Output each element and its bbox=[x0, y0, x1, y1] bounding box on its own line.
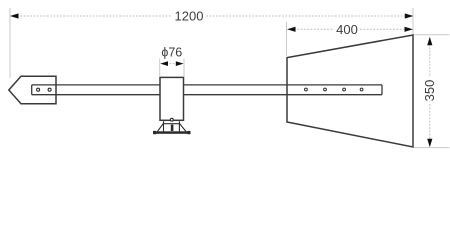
base plate bbox=[153, 131, 191, 134]
base center anchor bolt bbox=[171, 125, 174, 131]
left pointed end cap (pentagon) bbox=[9, 76, 56, 103]
dim phi76 arrow left bbox=[160, 61, 168, 66]
svg-text:ϕ76: ϕ76 bbox=[161, 46, 182, 60]
dim line 350 bbox=[429, 44, 431, 140]
dim 350 extension line top bbox=[414, 34, 450, 36]
dim line 1200 bbox=[17, 15, 406, 17]
hole R4 bbox=[360, 88, 363, 91]
dim 1200 arrow right bbox=[405, 13, 414, 18]
base plate end bolt right bbox=[187, 131, 190, 134]
base bolt circle bbox=[170, 118, 173, 121]
hole L1 bbox=[37, 88, 40, 91]
dim 400 arrow left bbox=[287, 27, 296, 32]
vertical column post bbox=[160, 77, 184, 120]
base mount assembly bbox=[157, 121, 186, 131]
dim 350 arrow down bbox=[427, 139, 432, 148]
dim 1200 arrow left bbox=[10, 13, 19, 18]
base plate end bolt left bbox=[153, 131, 156, 134]
hole R2 bbox=[324, 88, 327, 91]
dim phi76 extension line left bbox=[159, 59, 161, 78]
dim phi76 arrow right bbox=[176, 61, 184, 66]
dim 1200 extension line left bbox=[9, 8, 11, 78]
svg-text:400: 400 bbox=[336, 22, 358, 37]
dim 1200 extension line right bbox=[412, 8, 414, 34]
dim 400 extension line left bbox=[286, 22, 288, 56]
hole R1 bbox=[305, 88, 308, 91]
trapezoid plate (right) bbox=[287, 35, 413, 147]
hole L2 bbox=[48, 88, 51, 91]
dim 350 arrow up bbox=[427, 37, 432, 46]
dim line 400 bbox=[294, 28, 404, 30]
dim phi76 extension line right bbox=[183, 59, 185, 78]
dim 350 extension line bottom bbox=[414, 147, 450, 149]
svg-text:1200: 1200 bbox=[175, 9, 204, 24]
dim phi76 line bbox=[166, 63, 178, 65]
hole R3 bbox=[343, 88, 346, 91]
dim 400 arrow right bbox=[405, 27, 414, 32]
horizontal arm bar bbox=[32, 85, 382, 95]
svg-text:350: 350 bbox=[422, 80, 437, 102]
